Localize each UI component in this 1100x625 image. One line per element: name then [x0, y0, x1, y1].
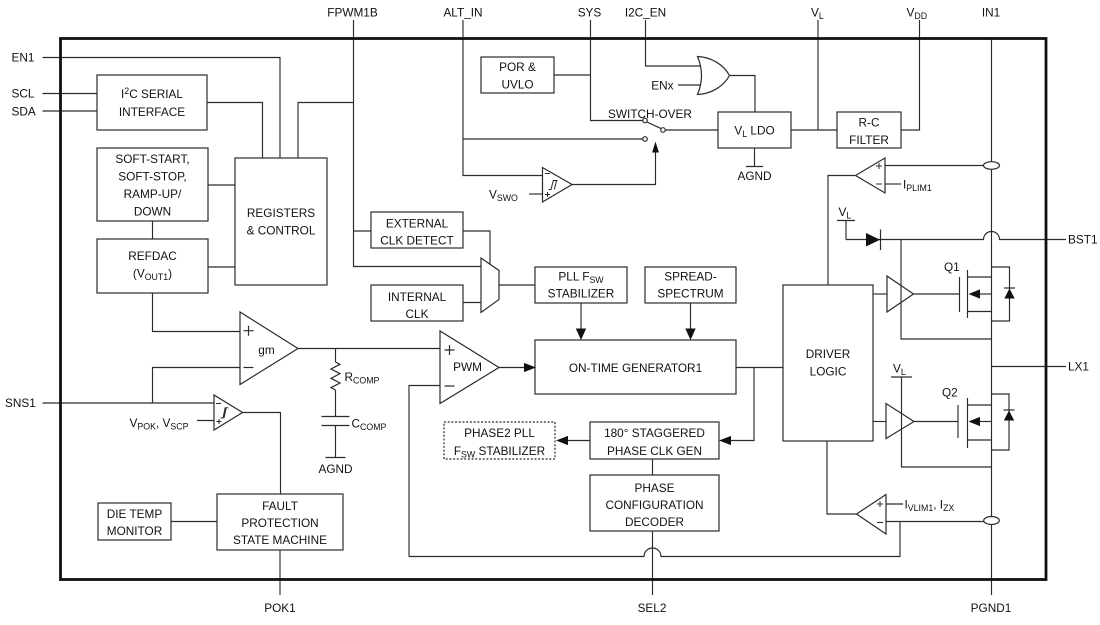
wire SCL to I2C interface: [43, 93, 98, 95]
wire bootstrap return rail through Q1 driver: [901, 240, 992, 340]
plus sign gm: [244, 326, 254, 336]
svg-text:PHASE CLK GEN: PHASE CLK GEN: [607, 444, 702, 458]
block PHASE CONFIGURATION DECODER: [590, 475, 719, 531]
wire VDD pin to R-C FILTER: [901, 20, 920, 130]
switch SWITCH-OVER pole contact: [661, 128, 666, 133]
wire DRIVER LOGIC to Q2 buffer: [873, 421, 886, 423]
diode Q2 body diode: [1004, 410, 1015, 421]
wire DIE TEMP to FAULT state machine: [171, 521, 217, 523]
svg-text:LX1: LX1: [1068, 360, 1089, 374]
block POR & UVLO: [481, 57, 554, 93]
block R-C FILTER: [837, 112, 901, 148]
buffer Q2 gate driver: [886, 404, 914, 439]
svg-text:R-C: R-C: [859, 116, 880, 130]
wire POK1 output: [279, 550, 281, 595]
svg-text:ALT_IN: ALT_IN: [443, 6, 482, 20]
diode Q1 body diode: [1004, 288, 1015, 299]
wire PLL FSW STABILIZER down arrow line: [580, 303, 582, 330]
ground AGND below CCOMP: [326, 457, 346, 459]
wire FPWM1B vertical to mux input: [354, 20, 482, 267]
comparator VSWO switch-over: [543, 168, 573, 203]
svg-text:VPOK, VSCP: VPOK, VSCP: [130, 416, 189, 432]
wire REFDAC to gm plus input: [153, 293, 241, 332]
plus sign PWM: [445, 345, 455, 355]
block PLL FSW STABILIZER: [535, 267, 627, 303]
svg-text:PROTECTION: PROTECTION: [241, 516, 318, 530]
schmitt symbol VPOK comparator: [221, 408, 229, 418]
block SOFT-START SOFT-STOP RAMP-UP DOWN: [97, 148, 208, 221]
op-amp PWM comparator: [440, 331, 499, 404]
svg-text:RAMP-UP/: RAMP-UP/: [124, 187, 182, 201]
block VL LDO: [718, 112, 791, 148]
block REGISTERS & CONTROL: [235, 158, 327, 285]
svg-text:I2C_EN: I2C_EN: [625, 6, 666, 20]
svg-text:REGISTERS: REGISTERS: [247, 206, 315, 220]
wire Q2 channel bar: [967, 398, 969, 448]
wire EXTERNAL CLK DETECT to mux: [463, 231, 490, 265]
block REFDAC VOUT1: [97, 239, 208, 293]
svg-text:VL: VL: [893, 362, 906, 378]
plus sign VSWO comparator: [545, 192, 550, 197]
wire Q2 body lead: [980, 421, 992, 423]
capacitor CCOMP: [322, 417, 350, 426]
svg-text:BST1: BST1: [1068, 233, 1098, 247]
arrowhead PWM output: [524, 363, 536, 372]
minus sign IVLIM1: [877, 522, 883, 524]
transistor Q1 body arrow: [969, 289, 981, 298]
wire OR gate output to VL LDO: [730, 76, 755, 113]
wire ENx label stub to OR gate: [678, 84, 701, 86]
svg-text:SWITCH-OVER: SWITCH-OVER: [608, 107, 692, 121]
svg-text:LOGIC: LOGIC: [810, 365, 847, 379]
node IN1 current sense ellipse: [984, 162, 1000, 170]
svg-text:EN1: EN1: [12, 51, 35, 65]
wire gm output to PWM plus input: [298, 348, 440, 350]
minus sign gm: [244, 367, 254, 369]
svg-text:Q1: Q1: [944, 260, 960, 274]
svg-text:INTERNAL: INTERNAL: [388, 290, 447, 304]
wire 180 staggered to PHASE CONFIGURATION DECODER: [652, 459, 654, 475]
svg-text:180° STAGGERED: 180° STAGGERED: [604, 426, 705, 440]
svg-text:& CONTROL: & CONTROL: [247, 224, 316, 238]
svg-text:VL: VL: [811, 6, 824, 22]
svg-text:AGND: AGND: [318, 462, 352, 476]
minus sign IPLIM1: [876, 183, 882, 185]
plus sign IPLIM1: [876, 163, 882, 169]
schmitt symbol VSWO comparator: [549, 181, 558, 190]
svg-text:DECODER: DECODER: [625, 515, 684, 529]
minus sign VSWO comparator: [545, 173, 550, 175]
svg-text:IVLIM1, IZX: IVLIM1, IZX: [905, 498, 955, 514]
comparator VPOK VSCP: [214, 395, 243, 430]
wire ON-TIME GENERATOR1 output to DRIVER LOGIC: [736, 367, 783, 369]
wire Q2 buffer to gate: [914, 421, 958, 423]
switch SWITCH-OVER throw contact ALT: [643, 137, 648, 142]
buffer Q1 gate driver: [887, 276, 914, 312]
svg-text:FAULT: FAULT: [262, 499, 298, 513]
svg-text:POR &: POR &: [499, 60, 536, 74]
block 180 STAGGERED PHASE CLK GEN: [590, 422, 719, 459]
wire Q1 source lead: [968, 311, 992, 313]
wire PWM minus input feedback: [409, 386, 440, 557]
block ON-TIME GENERATOR1: [535, 340, 736, 394]
svg-text:PGND1: PGND1: [971, 601, 1012, 615]
block DIE TEMP MONITOR: [98, 503, 171, 540]
svg-text:VL LDO: VL LDO: [734, 124, 774, 140]
svg-text:EXTERNAL: EXTERNAL: [386, 217, 449, 231]
wire Q2 body diode branch: [992, 394, 1010, 450]
svg-text:STATE MACHINE: STATE MACHINE: [233, 533, 327, 547]
comparator IVLIM1 IZX: [857, 495, 887, 535]
wire RCOMP to CCOMP: [335, 390, 337, 417]
wire SOFT-START to REGISTERS: [208, 184, 235, 186]
wire IVLIM label stub: [886, 503, 903, 505]
wire I2C interface output to REGISTERS & CONTROL: [207, 103, 263, 159]
wire SNS1 input: [43, 402, 215, 404]
svg-text:SYS: SYS: [578, 6, 602, 20]
svg-text:STABILIZER: STABILIZER: [548, 287, 615, 301]
wire 180 staggered to PHASE2 PLL stabilizer: [567, 440, 590, 442]
wire SYS to switch-over throw: [591, 20, 643, 121]
svg-text:ON-TIME GENERATOR1: ON-TIME GENERATOR1: [569, 361, 702, 375]
svg-text:PHASE: PHASE: [635, 481, 675, 495]
wire IPLIM1 label stub: [885, 183, 901, 185]
wire IPLIM1 comparator output to DRIVER LOGIC: [828, 176, 856, 286]
block SPREAD-SPECTRUM: [645, 267, 736, 303]
svg-text:Q2: Q2: [942, 386, 958, 400]
wire VL tee rail through Q2 driver: [891, 377, 992, 467]
svg-text:gm: gm: [258, 343, 275, 357]
wire bottom feedback run with hop over SEL2: [409, 522, 900, 557]
svg-text:POK1: POK1: [264, 601, 295, 615]
svg-text:SOFT-STOP,: SOFT-STOP,: [118, 170, 186, 184]
svg-text:CCOMP: CCOMP: [352, 417, 387, 433]
wire INTERNAL CLK to mux: [463, 302, 481, 304]
wire Q1 body lead: [980, 293, 992, 295]
arrowhead PLL FSW into ON-TIME: [576, 329, 586, 341]
wire IN1 LX PGND main vertical rail: [991, 39, 993, 596]
svg-text:CONFIGURATION: CONFIGURATION: [605, 498, 703, 512]
block FAULT PROTECTION STATE MACHINE: [217, 494, 343, 550]
svg-text:RCOMP: RCOMP: [345, 370, 380, 386]
wire VPOK comparator output to FAULT state machine: [243, 413, 281, 495]
diode bootstrap BST: [866, 230, 881, 251]
wire LX1: [992, 366, 1067, 368]
mux clock select: [481, 258, 499, 313]
wire I2C_EN to OR gate: [646, 20, 702, 66]
comparator IPLIM1: [856, 158, 886, 193]
svg-text:DRIVER: DRIVER: [806, 347, 851, 361]
wire FPWM1B branch to EXTERNAL CLK DETECT: [354, 230, 372, 232]
OR gate ENx: [698, 57, 730, 95]
svg-text:UVLO: UVLO: [501, 78, 533, 92]
switch actuator arrow: [652, 142, 659, 153]
minus sign PWM: [445, 385, 455, 387]
wire Q1 channel bar: [967, 270, 969, 318]
block INTERNAL CLK: [371, 285, 463, 321]
wire Q1 gate bar: [959, 277, 961, 312]
svg-text:IPLIM1: IPLIM1: [903, 178, 932, 194]
wire SDA to I2C interface: [43, 110, 98, 112]
svg-text:REFDAC: REFDAC: [128, 249, 177, 263]
svg-text:FILTER: FILTER: [849, 133, 889, 147]
svg-text:CLK: CLK: [406, 307, 429, 321]
wire REFDAC to REGISTERS: [208, 266, 235, 268]
arrowhead SPREAD-SPECTRUM into ON-TIME: [685, 329, 695, 341]
svg-text:DIE TEMP: DIE TEMP: [107, 507, 163, 521]
plus sign IVLIM1: [877, 501, 883, 507]
wire DRIVER LOGIC to Q1 buffer: [873, 293, 887, 295]
svg-text:SNS1: SNS1: [5, 396, 36, 410]
wire BST1 line with hop over IN1 rail: [846, 232, 1046, 240]
wire PWM output to ON-TIME GENERATOR1: [499, 367, 525, 369]
block PHASE2 PLL FSW STABILIZER dashed: [444, 422, 555, 459]
wire Q1 body diode branch: [992, 267, 1010, 321]
arrowhead into PHASE2 PLL dashed box: [556, 436, 568, 445]
wire VSWO label stub: [529, 193, 543, 195]
block I2C SERIAL INTERFACE: [97, 75, 207, 130]
wire IVLIM minus input to PGND sense: [886, 521, 985, 523]
svg-text:VL: VL: [839, 205, 852, 221]
wire Q2 gate bar: [957, 405, 959, 438]
wire SPREAD-SPECTRUM down arrow line: [690, 303, 692, 330]
wire VSWO comparator output to switch actuator: [572, 153, 656, 185]
wire VL tee for bootstrap diode: [837, 221, 855, 240]
wire ALT_IN branch to switch-over throw: [463, 138, 643, 140]
wire ALT_IN vertical to VSWO comparator: [463, 20, 543, 176]
wire VL LDO to AGND: [754, 148, 756, 167]
wire Q1 buffer to gate: [914, 293, 960, 295]
svg-text:PWM: PWM: [453, 360, 482, 374]
ground AGND below VL LDO: [746, 166, 763, 168]
wire SOFT-START to REFDAC: [152, 221, 154, 239]
svg-text:MONITOR: MONITOR: [107, 524, 163, 538]
block EXTERNAL CLK DETECT: [371, 212, 463, 248]
arrowhead into 180 staggered gen: [719, 436, 731, 445]
svg-text:INTERFACE: INTERFACE: [119, 105, 185, 119]
svg-text:SOFT-START,: SOFT-START,: [115, 152, 189, 166]
svg-text:VSWO: VSWO: [489, 188, 518, 204]
wire Q1 drain lead: [968, 276, 992, 278]
switch SWITCH-OVER lever: [647, 122, 661, 129]
node PGND current sense ellipse: [984, 517, 1000, 525]
wire SEL2: [652, 531, 654, 595]
chip outer border: [61, 39, 1047, 580]
wire IPLIM1 comparator plus input from IN1 sense: [885, 165, 984, 167]
svg-text:SDA: SDA: [12, 105, 36, 119]
wire FPWM1B branch to REGISTERS & CONTROL: [298, 103, 354, 159]
wire mux output to PLL FSW STABILIZER: [500, 284, 536, 286]
op-amp gm error amplifier: [240, 312, 298, 385]
svg-text:DOWN: DOWN: [134, 205, 171, 219]
wire VPOK VSCP label stub: [197, 420, 214, 422]
wire SNS1 branch to gm minus input: [153, 368, 241, 404]
wire node to RCOMP: [335, 349, 337, 363]
svg-text:SEL2: SEL2: [638, 601, 667, 615]
svg-text:SPECTRUM: SPECTRUM: [657, 287, 723, 301]
wire branch down to 180 staggered clk gen: [730, 368, 754, 441]
wire CCOMP to AGND: [335, 426, 337, 458]
wire IVLIM comparator output to DRIVER LOGIC: [827, 441, 857, 514]
resistor RCOMP: [331, 362, 340, 390]
wire EN1 to REGISTERS & CONTROL: [43, 58, 281, 159]
svg-text:AGND: AGND: [737, 169, 771, 183]
svg-text:CLK DETECT: CLK DETECT: [380, 234, 453, 248]
svg-text:SPREAD-: SPREAD-: [664, 270, 717, 284]
minus sign VPOK comparator: [216, 404, 222, 425]
wire Q2 drain lead: [968, 404, 992, 406]
wire Q2 source lead: [968, 439, 992, 441]
wire switch pole to VL LDO: [665, 129, 718, 131]
svg-text:FPWM1B: FPWM1B: [327, 6, 378, 20]
svg-text:SCL: SCL: [12, 87, 35, 101]
svg-text:ENx: ENx: [651, 79, 673, 93]
svg-text:I2C SERIAL: I2C SERIAL: [121, 86, 183, 101]
wire VL pin to LDO output line: [817, 20, 819, 130]
svg-text:IN1: IN1: [982, 6, 1000, 20]
svg-text:PHASE2 PLL: PHASE2 PLL: [464, 426, 535, 440]
block DRIVER LOGIC: [783, 285, 873, 441]
wire BST1 pin stub is part of BST line: [1046, 239, 1066, 241]
svg-text:VDD: VDD: [907, 6, 928, 22]
transistor Q2 body arrow: [969, 417, 981, 426]
wire POR UVLO output to SYS line: [554, 74, 591, 76]
switch SWITCH-OVER throw contact SYS: [643, 118, 648, 123]
wire VL LDO to R-C FILTER: [791, 129, 837, 131]
